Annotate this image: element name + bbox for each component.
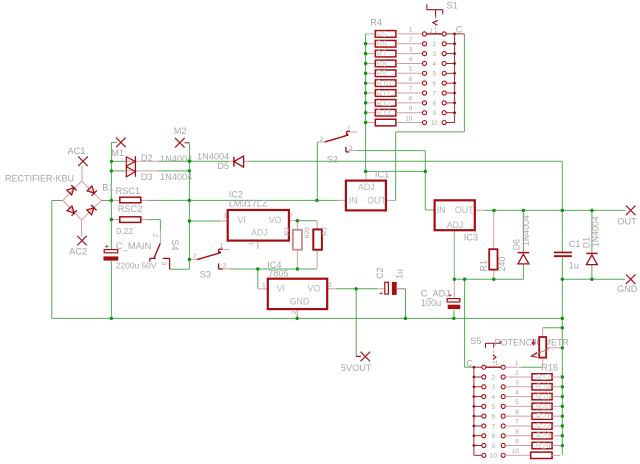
resistor R1 bbox=[489, 210, 497, 279]
wire ADJ-GND segment bbox=[454, 278, 523, 280]
wire D3 row bbox=[111, 170, 124, 172]
svg-text:D3: D3 bbox=[141, 172, 153, 182]
resistor R9 bbox=[366, 70, 423, 77]
svg-text:OUT: OUT bbox=[617, 217, 637, 227]
S5 contact row 10 bbox=[474, 453, 505, 457]
svg-text:1: 1 bbox=[429, 28, 433, 35]
rectifier bridge B1 bbox=[63, 181, 102, 220]
svg-text:RSC2: RSC2 bbox=[118, 204, 143, 214]
svg-text:1N4004: 1N4004 bbox=[160, 172, 192, 182]
wire D1 branch bbox=[591, 210, 593, 252]
resistor R20 lead/body bbox=[505, 403, 560, 409]
S5 contact row 5 bbox=[473, 404, 506, 408]
svg-text:3: 3 bbox=[160, 262, 167, 266]
wire D2 row bbox=[111, 160, 124, 162]
svg-text:820: 820 bbox=[304, 227, 311, 239]
svg-text:3: 3 bbox=[515, 380, 519, 387]
svg-text:S5: S5 bbox=[470, 336, 481, 346]
S5 contact row 6 bbox=[473, 414, 506, 418]
svg-text:1: 1 bbox=[262, 282, 266, 289]
svg-text:3: 3 bbox=[433, 51, 437, 58]
S1 contact row 1 bbox=[422, 32, 464, 36]
svg-text:C2: C2 bbox=[375, 268, 385, 279]
switch S2 bbox=[317, 132, 357, 152]
resistor R21 lead/body bbox=[505, 413, 560, 419]
svg-text:C_MAIN: C_MAIN bbox=[116, 240, 151, 251]
svg-text:R3: R3 bbox=[322, 227, 329, 236]
wire S2 pin3 to IC3 IN bbox=[357, 150, 426, 152]
wire OUT rail bbox=[484, 209, 625, 211]
svg-text:2: 2 bbox=[320, 136, 324, 143]
svg-text:6: 6 bbox=[409, 76, 413, 83]
wire bridge right corner link bbox=[101, 200, 111, 202]
wire IC4 GND pin bbox=[296, 314, 298, 318]
S1 contact row 5 bbox=[422, 71, 456, 75]
svg-text:3: 3 bbox=[492, 384, 496, 391]
wire IC1 OUT riser bbox=[395, 132, 397, 201]
svg-text:D5: D5 bbox=[217, 161, 229, 171]
svg-text:VO: VO bbox=[269, 215, 282, 225]
svg-text:S4: S4 bbox=[170, 239, 180, 250]
port GND bbox=[617, 274, 638, 294]
svg-text:6: 6 bbox=[515, 409, 519, 416]
resistor R18 lead/body bbox=[505, 384, 560, 390]
S1 contact row 2 bbox=[422, 42, 456, 46]
svg-text:+: + bbox=[105, 241, 110, 250]
svg-text:2200u 50V: 2200u 50V bbox=[116, 260, 157, 270]
capacitor C_ADJ bbox=[447, 279, 460, 309]
S5 contact row 1 bbox=[473, 365, 506, 369]
svg-text:1: 1 bbox=[220, 243, 224, 250]
svg-text:AC1: AC1 bbox=[68, 146, 86, 156]
svg-text:C: C bbox=[466, 359, 473, 369]
resistor R16 row1 lead/body bbox=[505, 366, 521, 368]
wire IC3 ADJ drop bbox=[453, 230, 455, 279]
svg-text:IN: IN bbox=[437, 205, 446, 215]
svg-text:1: 1 bbox=[347, 126, 351, 133]
resistor R16 row10 lead/body bbox=[505, 452, 560, 458]
svg-text:R8: R8 bbox=[376, 59, 387, 68]
svg-text:1N4004: 1N4004 bbox=[160, 154, 192, 164]
svg-text:IN: IN bbox=[349, 195, 358, 205]
wire D5 row long right bbox=[248, 160, 562, 162]
svg-text:240: 240 bbox=[497, 256, 507, 271]
wire D6 branch bbox=[522, 210, 524, 251]
S1 contact row 6 bbox=[422, 81, 456, 85]
svg-text:+: + bbox=[379, 289, 384, 298]
svg-text:9: 9 bbox=[433, 110, 437, 117]
svg-text:AC2: AC2 bbox=[69, 246, 87, 256]
svg-text:R20: R20 bbox=[536, 402, 551, 411]
potentiometer R16 symbol bbox=[531, 328, 561, 367]
port 5VOUT bbox=[341, 352, 372, 373]
wire rail x111 below C_MAIN bbox=[110, 261, 112, 319]
svg-text:ADJ: ADJ bbox=[251, 227, 268, 237]
S5 contact row 7 bbox=[473, 424, 506, 428]
svg-text:ADJ: ADJ bbox=[447, 220, 464, 230]
op-amp/regulator IC1 LM317 block bbox=[337, 171, 396, 210]
svg-text:2: 2 bbox=[492, 374, 496, 381]
diode D2 bbox=[125, 156, 136, 177]
svg-text:R5: R5 bbox=[376, 30, 387, 39]
svg-text:9: 9 bbox=[515, 438, 519, 445]
resistor R10 bbox=[366, 80, 423, 87]
svg-text:10: 10 bbox=[405, 115, 413, 122]
svg-text:1: 1 bbox=[409, 27, 413, 34]
wire S4 pin3 link bbox=[170, 268, 190, 270]
S1 contact row 3 bbox=[422, 52, 456, 56]
svg-text:4: 4 bbox=[515, 389, 519, 396]
pin M1 bbox=[111, 138, 125, 159]
resistor R17 lead/body bbox=[505, 374, 560, 380]
wire M1 stub bbox=[111, 141, 117, 143]
port AC2 bbox=[69, 220, 87, 256]
wire bridge left corner link bbox=[52, 200, 63, 202]
wire right drop x562 bbox=[561, 161, 563, 252]
svg-text:7: 7 bbox=[515, 419, 519, 426]
svg-text:GND: GND bbox=[290, 296, 310, 306]
svg-text:R1: R1 bbox=[478, 260, 488, 272]
wire C2 to GND bbox=[405, 289, 407, 319]
resistor R19 lead/body bbox=[505, 393, 560, 399]
svg-text:OUT: OUT bbox=[455, 205, 474, 215]
svg-text:ADJ: ADJ bbox=[358, 182, 375, 192]
S5 contact bus line bbox=[473, 367, 475, 445]
wire bottom block feed bbox=[464, 279, 466, 367]
svg-text:2: 2 bbox=[289, 213, 293, 220]
wire S2 common drop bbox=[316, 142, 318, 200]
svg-text:4: 4 bbox=[409, 56, 413, 63]
wire rail x189 bbox=[188, 143, 190, 269]
resistor RSC2 bbox=[111, 217, 148, 223]
svg-text:4: 4 bbox=[492, 394, 496, 401]
diode D6 bbox=[518, 253, 530, 264]
svg-text:7: 7 bbox=[409, 86, 413, 93]
capacitor C1 bbox=[554, 252, 572, 258]
svg-text:10: 10 bbox=[490, 453, 498, 460]
svg-text:5: 5 bbox=[433, 71, 437, 78]
svg-text:100u: 100u bbox=[421, 298, 441, 308]
wire bus to S2/IC3 row bbox=[366, 170, 426, 172]
diode D3 bbox=[125, 161, 158, 177]
svg-text:1: 1 bbox=[515, 360, 519, 367]
svg-text:OUT: OUT bbox=[367, 195, 386, 205]
svg-text:8: 8 bbox=[492, 433, 496, 440]
wire RSC1 to IC1 IN bbox=[148, 199, 337, 201]
svg-text:VI: VI bbox=[277, 284, 285, 294]
wire rail x111 bbox=[110, 142, 112, 249]
svg-text:7805: 7805 bbox=[268, 268, 288, 278]
wire pot top link bbox=[543, 327, 563, 329]
svg-text:3: 3 bbox=[409, 46, 413, 53]
S1 contact row 9 bbox=[422, 111, 456, 115]
capacitor C2 bbox=[378, 282, 406, 298]
svg-text:2: 2 bbox=[515, 370, 519, 377]
resistor R23 lead/body bbox=[505, 433, 560, 439]
svg-text:2: 2 bbox=[151, 234, 158, 238]
svg-text:LM317LZ: LM317LZ bbox=[229, 199, 268, 209]
svg-text:S3: S3 bbox=[200, 270, 211, 280]
svg-text:8: 8 bbox=[515, 429, 519, 436]
S5 contact row 9 bbox=[473, 443, 506, 447]
wire pot row1 link bbox=[521, 366, 543, 368]
svg-text:S2: S2 bbox=[327, 155, 338, 165]
svg-text:8: 8 bbox=[433, 100, 437, 107]
resistor R4 row10 bbox=[366, 119, 423, 126]
S1 contact bus line bbox=[454, 34, 456, 113]
svg-text:R10: R10 bbox=[376, 79, 391, 88]
resistor RSC1 bbox=[111, 197, 148, 203]
diode D1 bbox=[586, 253, 597, 264]
regulator IC3 block bbox=[435, 200, 485, 230]
S1 contact row 4 bbox=[422, 61, 456, 65]
svg-text:R17: R17 bbox=[536, 373, 551, 382]
S1 contact row 8 bbox=[422, 101, 456, 105]
resistor R2 bbox=[293, 221, 302, 269]
svg-text:3: 3 bbox=[223, 213, 227, 220]
svg-text:1N4004: 1N4004 bbox=[197, 151, 229, 161]
resistor R22 lead/body bbox=[505, 423, 560, 429]
svg-text:7: 7 bbox=[433, 90, 437, 97]
resistor R12 bbox=[366, 100, 423, 107]
svg-text:M1: M1 bbox=[111, 148, 124, 158]
resistor R5 bbox=[366, 31, 423, 38]
svg-text:C1: C1 bbox=[569, 239, 581, 249]
svg-text:R13: R13 bbox=[376, 109, 391, 118]
wire C_ADJ bottom bbox=[453, 310, 455, 319]
svg-text:C: C bbox=[456, 25, 463, 35]
svg-text:10: 10 bbox=[512, 448, 520, 455]
svg-text:3: 3 bbox=[349, 145, 353, 152]
svg-text:10: 10 bbox=[431, 120, 439, 127]
svg-text:R2: R2 bbox=[284, 227, 291, 236]
wire D5 row left bbox=[189, 160, 229, 162]
wire left rail bbox=[51, 201, 53, 319]
svg-text:1: 1 bbox=[248, 242, 255, 246]
wire RSC2 to S4 bbox=[148, 219, 160, 221]
S5 contact row 4 bbox=[473, 395, 506, 399]
resistor R13 bbox=[366, 109, 423, 116]
wire R4 bus bbox=[365, 34, 367, 172]
wire IC2 VI feed bbox=[189, 220, 220, 222]
wire IC2 VO net bbox=[295, 220, 317, 222]
svg-text:5VOUT: 5VOUT bbox=[341, 363, 372, 373]
S1 contact row 7 bbox=[422, 91, 456, 95]
wire GND rail bottom bbox=[52, 317, 563, 319]
port AC1 bbox=[68, 146, 88, 181]
svg-text:9: 9 bbox=[409, 105, 413, 112]
svg-text:3: 3 bbox=[328, 282, 332, 289]
svg-text:RSC1: RSC1 bbox=[116, 186, 141, 196]
switch S4 bbox=[150, 230, 170, 269]
S5 contact row 2 bbox=[473, 375, 506, 379]
resistor R7 bbox=[366, 50, 423, 57]
svg-text:S1: S1 bbox=[447, 1, 458, 11]
pin M2 bbox=[174, 126, 190, 148]
svg-text:M2: M2 bbox=[174, 126, 187, 136]
switch S1 symbol bbox=[427, 4, 443, 33]
svg-text:VI: VI bbox=[238, 215, 246, 225]
svg-text:R19: R19 bbox=[536, 392, 551, 401]
wire IC4 VI feed bbox=[257, 269, 259, 289]
diode D5 bbox=[229, 156, 248, 167]
svg-text:2: 2 bbox=[291, 310, 298, 314]
svg-text:5: 5 bbox=[492, 404, 496, 411]
svg-text:3: 3 bbox=[223, 262, 227, 269]
wire S1 common bus bbox=[463, 34, 465, 132]
svg-text:R24: R24 bbox=[536, 441, 551, 450]
svg-text:IC3: IC3 bbox=[464, 233, 478, 243]
regulator IC4 7805 bbox=[258, 279, 336, 315]
svg-text:2: 2 bbox=[433, 41, 437, 48]
svg-text:R6: R6 bbox=[376, 40, 387, 49]
svg-text:9: 9 bbox=[492, 443, 496, 450]
svg-text:7: 7 bbox=[492, 423, 496, 430]
svg-text:6: 6 bbox=[492, 414, 496, 421]
svg-text:R4: R4 bbox=[370, 18, 382, 28]
svg-text:R18: R18 bbox=[536, 383, 551, 392]
svg-text:R11: R11 bbox=[376, 89, 391, 98]
svg-text:R21: R21 bbox=[536, 412, 551, 421]
svg-text:B1: B1 bbox=[102, 182, 113, 192]
svg-text:R12: R12 bbox=[376, 99, 391, 108]
svg-text:1u: 1u bbox=[394, 269, 404, 279]
S5 contact row 8 bbox=[473, 434, 506, 438]
resistor R6 bbox=[366, 40, 423, 47]
switch S5 symbol bbox=[485, 341, 500, 366]
svg-text:5: 5 bbox=[409, 66, 413, 73]
svg-text:IC1: IC1 bbox=[375, 170, 389, 180]
S1 contact row 10 bbox=[422, 121, 454, 125]
svg-text:RECTIFIER-KBU: RECTIFIER-KBU bbox=[5, 173, 74, 183]
svg-text:D2: D2 bbox=[141, 153, 153, 163]
wire 5VOUT drop bbox=[355, 289, 357, 357]
svg-text:VO: VO bbox=[308, 284, 321, 294]
svg-text:1u: 1u bbox=[569, 261, 579, 271]
svg-text:4: 4 bbox=[433, 61, 437, 68]
wire 5V rail bbox=[336, 288, 378, 290]
svg-text:1N4004: 1N4004 bbox=[521, 215, 531, 246]
svg-text:2: 2 bbox=[193, 253, 197, 260]
svg-text:R23: R23 bbox=[536, 432, 551, 441]
wire GND marker segment bbox=[562, 278, 625, 280]
svg-text:1: 1 bbox=[495, 360, 499, 367]
resistor R11 bbox=[366, 90, 423, 97]
svg-text:GND: GND bbox=[617, 284, 638, 294]
svg-text:R7: R7 bbox=[376, 50, 387, 59]
svg-text:R9: R9 bbox=[376, 69, 387, 78]
S5 contact row 3 bbox=[473, 385, 506, 389]
resistor R24 lead/body bbox=[505, 442, 560, 448]
svg-text:0.22: 0.22 bbox=[116, 226, 133, 236]
svg-text:2: 2 bbox=[409, 36, 413, 43]
resistor R8 bbox=[366, 60, 423, 67]
switch S3 bbox=[189, 249, 230, 269]
svg-text:D6: D6 bbox=[512, 239, 522, 250]
resistor R3 bbox=[313, 221, 322, 269]
svg-text:R22: R22 bbox=[536, 422, 551, 431]
svg-text:5: 5 bbox=[515, 399, 519, 406]
svg-text:R16: R16 bbox=[541, 362, 558, 372]
svg-text:8: 8 bbox=[409, 96, 413, 103]
wire ADJ net y269 bbox=[228, 268, 317, 270]
svg-text:6: 6 bbox=[433, 81, 437, 88]
svg-text:1N4004: 1N4004 bbox=[590, 216, 600, 247]
port OUT bbox=[617, 206, 637, 227]
capacitor C_MAIN bbox=[104, 241, 119, 260]
regulator IC2 LM317LZ bbox=[220, 210, 295, 249]
